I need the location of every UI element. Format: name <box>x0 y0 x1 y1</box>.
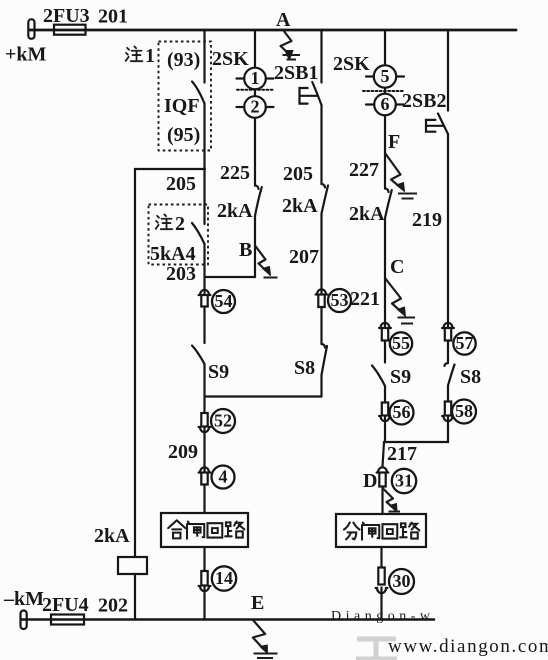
svg-text:1: 1 <box>145 45 155 67</box>
wire junction B branch horizontal <box>205 276 256 278</box>
contact S8 hook <box>322 344 326 348</box>
wire box to pin30 <box>380 547 382 568</box>
plug socket of pin 52 <box>199 427 211 432</box>
plug pin 58 <box>445 402 451 416</box>
wire IQF to node 205 junction <box>203 104 205 225</box>
plug socket of pin 56 <box>379 416 391 421</box>
contact 2kA (2SB1 branch) blade <box>322 186 329 214</box>
terminal circle 56 <box>390 401 414 425</box>
zha <box>187 522 204 539</box>
dashed coupling line of 2SK 5-6 <box>363 90 404 92</box>
terminal circle 52 <box>211 409 235 433</box>
wire pin55 to S9 <box>384 341 386 363</box>
wire top bus 201 <box>29 29 516 32</box>
svg-text:205: 205 <box>166 173 196 195</box>
2SK plug contact 5 <box>374 65 396 87</box>
svg-text:227: 227 <box>349 159 379 181</box>
tick left of contact 6 <box>366 103 374 105</box>
svg-text:2kA: 2kA <box>217 200 253 222</box>
plug socket of pin 54 <box>199 290 211 295</box>
fen <box>344 523 360 540</box>
svg-text:207: 207 <box>289 246 319 268</box>
svg-text:225: 225 <box>220 162 250 184</box>
svg-text:–kM: –kM <box>3 588 44 610</box>
node D arrow <box>383 488 401 512</box>
wire contact6 to node F <box>384 115 386 153</box>
svg-text:www.diangon.com: www.diangon.com <box>388 636 548 657</box>
tick left of contact 5 <box>366 75 374 77</box>
contact S8 blade <box>322 346 328 375</box>
wire main column from bus to IQF <box>203 30 205 83</box>
lu <box>225 522 244 538</box>
svg-text:30: 30 <box>393 571 411 591</box>
plug pin 56 <box>382 403 388 416</box>
wire 209 segment <box>203 427 205 473</box>
svg-text:Diangon-w: Diangon-w <box>331 609 435 624</box>
contact 2kA (closing loop) blade <box>255 187 262 216</box>
wire link contact5 to contact6 <box>384 88 386 94</box>
svg-text:2FU3: 2FU3 <box>43 5 90 27</box>
wire S9 to pin56 <box>384 386 386 403</box>
plug pin 52 <box>201 413 207 427</box>
note 2 dashed box around 5kA4 <box>149 205 209 265</box>
svg-text:2SK: 2SK <box>333 53 370 75</box>
wire pin57 to S8 <box>447 341 449 364</box>
wire pin30 to bottom bus <box>380 588 382 620</box>
svg-text:2: 2 <box>175 213 185 235</box>
wire 2SB1 to 2kA contact <box>320 105 322 184</box>
lu <box>400 523 419 539</box>
svg-text:56: 56 <box>393 402 411 422</box>
2SK plug contact 6 <box>374 94 396 116</box>
svg-text:14: 14 <box>215 568 233 588</box>
wire left rail lower <box>134 574 136 620</box>
plug socket of pin 30 <box>376 588 388 593</box>
hui <box>383 524 398 538</box>
svg-text:31: 31 <box>395 471 413 491</box>
relay coil 2kA <box>118 557 147 574</box>
wire left rail upper <box>135 169 205 557</box>
svg-text:205: 205 <box>283 163 313 185</box>
contact 2kA (closing loop) hook <box>255 186 259 190</box>
tick left of contact 2 <box>237 106 245 108</box>
wire pin58 down to 217 junction <box>385 416 448 443</box>
node C arrow <box>385 278 415 324</box>
tripping circuit box 分闸回路 <box>336 514 426 547</box>
watermark logo blocks <box>356 639 397 660</box>
plug socket of pin 31 <box>377 467 389 472</box>
wire bottom bus 202 <box>21 618 434 621</box>
svg-text:4: 4 <box>219 467 228 487</box>
pushbutton 2SB2 actuator <box>426 120 444 132</box>
fuse 2FU3 <box>54 25 86 35</box>
closing circuit box 合闸回路 <box>161 513 248 547</box>
tick right of contact 2 <box>266 106 274 108</box>
plug socket of pin 14 <box>199 586 211 591</box>
hui <box>208 523 223 537</box>
wire box to pin14 <box>203 547 205 571</box>
wire pin53 to S8 <box>320 307 322 344</box>
2SK plug contact 1 <box>244 68 266 90</box>
wire 2SB2 column from bus <box>447 30 449 111</box>
svg-text:F: F <box>388 131 400 153</box>
node F arrow <box>385 153 417 199</box>
svg-text:52: 52 <box>214 411 232 431</box>
svg-text:5: 5 <box>381 66 390 86</box>
svg-text:S8: S8 <box>294 357 315 379</box>
terminal circle 30 <box>389 569 414 594</box>
wire S9 to junction <box>203 364 205 413</box>
contact S9 left <box>192 346 205 365</box>
svg-text:219: 219 <box>412 209 442 231</box>
terminal +kM <box>28 19 34 39</box>
note 1 dashed box around IQF <box>159 42 212 151</box>
svg-text:202: 202 <box>98 595 128 617</box>
svg-text:(95): (95) <box>167 124 200 146</box>
wire node D to tripping box <box>381 487 383 515</box>
svg-text:2: 2 <box>251 97 260 117</box>
wire S8 to pin58 <box>447 386 449 402</box>
terminal circle 14 <box>212 566 236 590</box>
node A arrow <box>281 31 301 61</box>
svg-text:209: 209 <box>168 441 198 463</box>
svg-text:5kA4: 5kA4 <box>150 243 196 265</box>
svg-text:2SB1: 2SB1 <box>274 62 318 84</box>
pushbutton 2SB2 blade <box>438 114 448 135</box>
svg-text:2kA: 2kA <box>282 195 318 217</box>
terminal -kM <box>21 611 27 630</box>
terminal circle 55 <box>390 332 412 354</box>
svg-text:IQF: IQF <box>164 95 200 117</box>
plug pin 31 <box>379 473 385 487</box>
tripping box text 分闸回路 <box>344 523 419 540</box>
closing box text 合闸回路 <box>168 520 244 538</box>
contact S8 right hook <box>445 363 449 366</box>
he <box>168 520 185 538</box>
svg-text:S9: S9 <box>390 366 411 388</box>
tick right of contact 6 <box>396 103 404 105</box>
wire 219 segment <box>447 134 449 329</box>
svg-text:53: 53 <box>331 290 349 310</box>
svg-text:201: 201 <box>98 6 128 28</box>
wire pin54 to S9 <box>203 307 205 344</box>
plug socket of pin 53 <box>316 289 328 294</box>
svg-text:221: 221 <box>350 288 380 310</box>
wire 2SK column from bus <box>254 30 256 68</box>
contact S8 right blade <box>448 365 455 386</box>
label 注2 (note 2) hanzi zhu <box>156 214 173 229</box>
anti-pump contact 5kA4 <box>192 223 205 244</box>
svg-text:6: 6 <box>381 94 390 114</box>
terminal circle 53 <box>328 289 351 312</box>
svg-text:C: C <box>390 256 404 278</box>
wire node C to pin55 <box>384 278 386 329</box>
plug pin 4 <box>201 473 207 485</box>
zha <box>362 523 379 540</box>
svg-text:203: 203 <box>166 263 196 285</box>
wire 2SK56 column from bus <box>384 30 386 65</box>
plug pin 57 <box>445 328 451 341</box>
tick left of contact 1 <box>237 77 245 79</box>
plug socket of pin 4 <box>199 467 211 472</box>
svg-text:54: 54 <box>215 291 233 311</box>
svg-text:2kA: 2kA <box>349 203 385 225</box>
svg-text:2FU4: 2FU4 <box>42 594 89 616</box>
tick right of contact 1 <box>266 77 274 79</box>
terminal circle 4 <box>212 466 235 489</box>
wire link contact1 to contact2 <box>254 89 256 96</box>
contact 2kA (tripping loop) hook <box>385 189 389 193</box>
tick right of contact 5 <box>396 75 404 77</box>
wire node F to 2kA contact <box>384 153 386 189</box>
terminal circle 57 <box>453 332 475 354</box>
svg-text:S8: S8 <box>460 366 481 388</box>
svg-text:S9: S9 <box>208 361 229 383</box>
svg-text:+kM: +kM <box>5 44 47 66</box>
wire pin4 to closing box <box>203 485 205 514</box>
fuse 2FU4 <box>51 615 84 625</box>
terminal circle 54 <box>212 290 235 313</box>
2SK plug contact 2 <box>244 96 266 118</box>
node E arrow <box>253 620 278 658</box>
wire 225 segment <box>254 118 256 186</box>
svg-text:217: 217 <box>387 443 417 465</box>
svg-text:2SK: 2SK <box>212 48 249 70</box>
wire S8 down to junction <box>320 375 322 397</box>
wire pin14 to bottom bus <box>203 586 205 620</box>
svg-text:(93): (93) <box>167 49 200 71</box>
svg-text:55: 55 <box>392 333 410 353</box>
svg-text:58: 58 <box>455 401 473 421</box>
breaker aux contact IQF <box>192 82 205 104</box>
svg-text:2SB2: 2SB2 <box>402 90 446 112</box>
svg-text:E: E <box>251 592 264 614</box>
contact 2kA (2SB1 branch) hook <box>322 184 326 188</box>
dashed coupling line of 2SK 1-2 <box>237 89 274 91</box>
plug socket of pin 57 <box>442 323 454 328</box>
wire junction to pin31 <box>383 442 386 467</box>
pushbutton 2SB1 blade <box>312 82 321 105</box>
plug pin 30 <box>378 568 384 585</box>
wire junction S8 branch horizontal <box>205 395 322 397</box>
node B arrow <box>255 246 278 278</box>
label 注1 (note 1) hanzi zhu <box>126 46 143 61</box>
terminal circle 31 <box>392 469 416 493</box>
wire 207 segment <box>320 214 322 296</box>
svg-text:57: 57 <box>456 333 474 353</box>
wire to node B <box>254 216 256 277</box>
svg-text:A: A <box>276 9 291 31</box>
svg-text:2kA: 2kA <box>94 525 130 547</box>
plug socket of pin 58 <box>442 416 454 421</box>
wire 2SB1 column from bus <box>320 30 322 83</box>
plug socket of pin 55 <box>379 323 391 328</box>
pushbutton 2SB1 actuator <box>300 88 318 104</box>
contact 2kA (tripping loop) blade <box>385 190 392 218</box>
wire pin56 to junction 217 <box>384 416 386 443</box>
svg-text:B: B <box>239 239 252 261</box>
svg-text:D: D <box>363 470 377 492</box>
contact S9 right blade <box>372 366 385 387</box>
wire 2kA to node C <box>384 218 386 278</box>
wire 203 segment <box>203 244 205 296</box>
plug pin 55 <box>382 328 388 341</box>
plug pin 14 <box>201 571 207 586</box>
plug pin 53 <box>318 295 324 308</box>
svg-text:1: 1 <box>251 68 260 88</box>
terminal circle 58 <box>452 400 476 424</box>
plug pin 54 <box>201 295 207 307</box>
